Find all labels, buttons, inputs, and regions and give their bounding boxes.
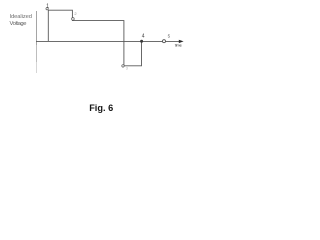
node 2 circle (72, 18, 75, 21)
node 1 circle (46, 8, 48, 10)
svg-text:time: time (175, 43, 182, 48)
time axis wire (36, 40, 180, 42)
svg-text:3: 3 (126, 67, 128, 71)
svg-text:5: 5 (168, 33, 171, 38)
svg-text:Idealized: Idealized (10, 14, 33, 20)
node 4 dot (140, 40, 143, 43)
time axis arrowhead (179, 40, 184, 43)
svg-text:1: 1 (46, 4, 49, 10)
voltage axis (36, 11, 38, 73)
node 5 circle (163, 40, 166, 43)
svg-text:2: 2 (74, 11, 77, 16)
waveform wire: rise, top level, step, mid level, dip, bottom, return (48, 10, 141, 66)
svg-text:4: 4 (142, 34, 145, 40)
node 3 circle (122, 65, 124, 67)
svg-text:Fig. 6: Fig. 6 (89, 103, 113, 113)
svg-text:Voltage: Voltage (10, 21, 27, 27)
